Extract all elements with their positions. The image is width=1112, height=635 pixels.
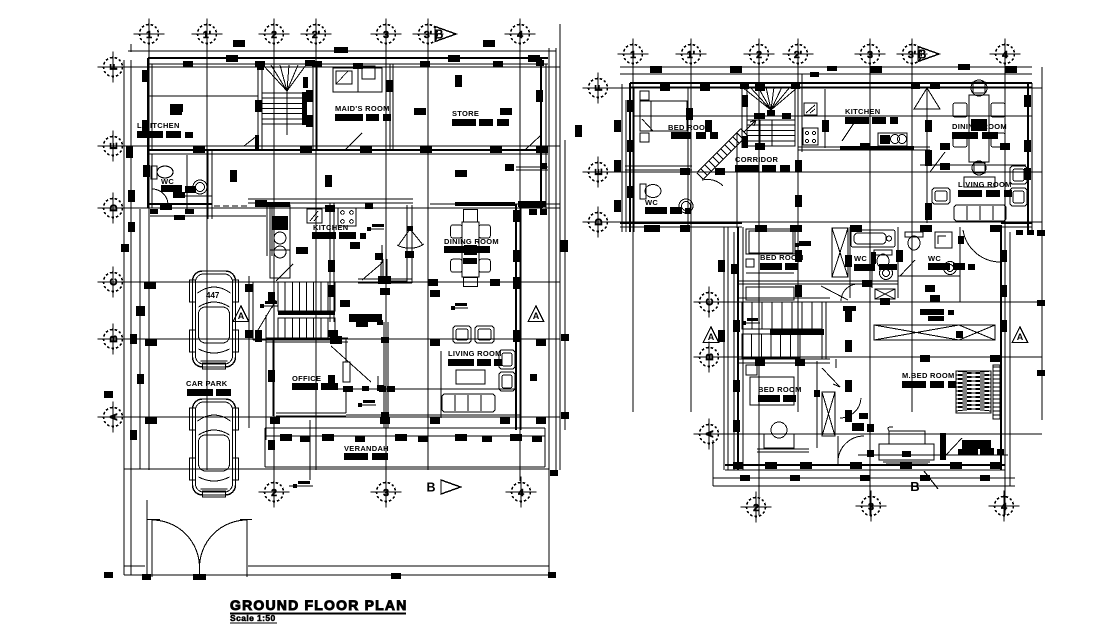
lower bedroom walls: [835, 359, 837, 368]
section tri A right plan left: [703, 327, 719, 343]
lkitchen beam: [148, 95, 258, 97]
mbed: [879, 444, 934, 460]
toilet wc2: [905, 232, 923, 250]
svg-text:4: 4: [518, 487, 524, 499]
svg-text:A: A: [704, 430, 716, 438]
svg-text:2: 2: [271, 29, 277, 41]
svg-text:CORRIDOR: CORRIDOR: [735, 155, 779, 164]
svg-text:2': 2': [794, 49, 802, 61]
level marker dining: [451, 306, 455, 310]
svg-text:447: 447: [206, 291, 220, 300]
corridor arrow: [744, 120, 756, 132]
dining beam y204: [430, 203, 560, 205]
section tri A right of living: [528, 306, 544, 322]
svg-text:BED ROOM: BED ROOM: [758, 385, 802, 394]
dining fan door right plan: [914, 88, 940, 109]
right plan right wall upper: [1027, 83, 1029, 232]
level marker stair right: [742, 321, 746, 325]
grid bubble C left side: [104, 273, 123, 292]
svg-text:3': 3': [424, 29, 432, 41]
corridor ramp: [703, 135, 747, 179]
svg-text:C: C: [704, 298, 716, 306]
svg-text:OFFICE: OFFICE: [292, 374, 321, 383]
grid bubble D right side: [589, 213, 608, 232]
wall x330: [329, 203, 331, 322]
stair right plan: [747, 120, 795, 146]
dresser blob: [962, 440, 991, 449]
property boundary left plan: [123, 60, 125, 575]
grid horizontal lines left plan: [102, 66, 560, 68]
right wall x516-520: [515, 204, 517, 430]
svg-text:1: 1: [146, 29, 152, 41]
kitchen counter right plan: [798, 146, 930, 148]
side fence pair: [139, 209, 141, 469]
living tv table: [456, 370, 485, 384]
svg-text:A: A: [238, 311, 245, 321]
level marker stairs: [260, 304, 264, 308]
grid bubble 2 right plan: [750, 45, 769, 64]
living armchair right plan: [932, 188, 950, 204]
svg-text:B: B: [108, 335, 120, 343]
right room walls: [959, 227, 961, 302]
gate arcs bottom left: [151, 520, 153, 578]
svg-text:3: 3: [383, 487, 389, 499]
electric panel right plan: [804, 103, 817, 115]
wall y298 lower: [738, 297, 830, 299]
toilet TL: [640, 184, 646, 199]
grid bubble 3 right plan: [861, 45, 880, 64]
svg-text:2: 2: [271, 487, 277, 499]
wall y205: [148, 203, 212, 205]
corridor guide line: [736, 133, 738, 228]
grid bubble 1' right plan: [682, 45, 701, 64]
grid bubble F right side: [589, 79, 608, 98]
grid bubble F left side: [104, 58, 123, 77]
grid bubble 1 left: [140, 25, 159, 44]
wall y150 band: [148, 149, 548, 151]
wall y359: [738, 358, 830, 360]
top-right room arc: [963, 230, 1000, 262]
svg-text:A: A: [108, 413, 120, 421]
grid bubble E left side: [104, 137, 123, 156]
lower block right wall: [1000, 227, 1002, 470]
bed top-left: [640, 101, 687, 131]
grid bubble 4 bottom left plan: [512, 483, 531, 502]
svg-text:D: D: [593, 218, 605, 226]
left plan wall blobs: [142, 70, 149, 82]
wc mid walls: [849, 227, 851, 298]
level marker verandah: [293, 484, 297, 488]
grid bubble E right side: [589, 163, 608, 182]
dining wall x930: [926, 108, 928, 223]
svg-text:WC: WC: [854, 254, 867, 263]
svg-text:GROUND FLOOR PLAN: GROUND FLOOR PLAN: [230, 597, 408, 613]
svg-text:B: B: [917, 48, 926, 62]
grid vertical lines right plan: [632, 44, 634, 412]
grid bubble 4 right plan: [996, 45, 1015, 64]
verandah lines: [265, 427, 545, 429]
bedroom TL door arc: [702, 179, 723, 186]
section marker B top left plan: [435, 27, 456, 42]
svg-text:KITCHEN: KITCHEN: [845, 107, 880, 116]
level marker kitchen: [367, 227, 371, 231]
section tri A left plan: [233, 306, 249, 322]
svg-text:3: 3: [383, 29, 389, 41]
grid bubble A right side: [700, 425, 719, 444]
bed lower left room: [746, 365, 757, 375]
outer wall top: [148, 57, 548, 59]
stair lower wall: [821, 302, 823, 359]
svg-text:LIVING ROOM: LIVING ROOM: [448, 349, 502, 358]
door arc lower mid: [840, 398, 861, 418]
grid bubble 3 bottom right plan: [862, 497, 881, 516]
svg-text:3: 3: [868, 501, 874, 513]
svg-text:KITCHEN: KITCHEN: [313, 223, 348, 232]
verandah blob row: [280, 434, 292, 441]
right plan left wall upper: [629, 83, 631, 232]
grid horizontal lines right plan: [587, 87, 1042, 89]
blob cluster mid right plan: [920, 309, 944, 315]
grid bubble 2' left: [307, 25, 326, 44]
lkitchen bottom door diag: [244, 135, 258, 146]
svg-text:2: 2: [753, 502, 759, 514]
svg-text:3: 3: [867, 49, 873, 61]
svg-text:DINING ROOM: DINING ROOM: [952, 122, 1007, 131]
living chairs right col: [1010, 166, 1027, 184]
right plan wall blobs: [650, 66, 662, 73]
svg-text:B: B: [426, 481, 435, 495]
wardrobe X2: [822, 392, 835, 436]
svg-text:E: E: [593, 168, 605, 175]
grid bubble 4 left: [511, 25, 530, 44]
washer wc mid: [880, 267, 893, 280]
grid bubble 2 bottom left plan: [265, 483, 284, 502]
grid bubble 1 right plan: [624, 45, 643, 64]
grid bubble 2' right plan: [789, 45, 808, 64]
wc door arc left: [152, 189, 168, 204]
carpet strip: [993, 365, 1000, 419]
grid bubble 3' right plan: [903, 45, 922, 64]
grid bubble 3 left: [377, 25, 396, 44]
wall x310 stairwell: [312, 64, 314, 150]
wc TL walls: [625, 165, 692, 167]
sink left plan: [193, 180, 207, 194]
wardrobe X1: [832, 228, 848, 277]
stairs lower flight B: [278, 318, 335, 340]
kitchen sink unit: [272, 216, 288, 230]
svg-text:1: 1: [630, 49, 636, 61]
svg-text:B: B: [704, 353, 716, 361]
right wall step y168: [516, 166, 548, 168]
grid bubble 2 left: [265, 25, 284, 44]
grid bubble 3 bottom left plan: [377, 483, 396, 502]
maids room door diag: [345, 133, 362, 150]
svg-text:MAID'S ROOM: MAID'S ROOM: [335, 104, 390, 113]
lower block bottom: [725, 464, 1005, 466]
wall x390 maids/store: [389, 64, 391, 150]
mbed area blobs: [867, 424, 874, 432]
outer wall right upper: [540, 58, 542, 214]
sink wc2: [935, 232, 952, 248]
svg-text:B: B: [434, 28, 443, 42]
svg-text:4: 4: [1001, 501, 1007, 513]
sink TL: [679, 199, 693, 213]
kitchen counter left: [270, 205, 290, 250]
living armchair 2: [475, 326, 494, 343]
carpet hatch: [956, 371, 991, 413]
stairs top fan: [263, 65, 287, 91]
svg-text:DINING ROOM: DINING ROOM: [444, 237, 499, 246]
kitchen wall y203: [248, 202, 413, 204]
wall x258 stairwell: [257, 64, 259, 150]
stair right wall x798: [797, 74, 799, 152]
svg-text:STORE: STORE: [452, 109, 479, 118]
stove left plan: [338, 208, 356, 226]
grid bubble 1' left: [198, 25, 217, 44]
grid bubble B left side: [104, 330, 123, 349]
dining table right plan: [969, 95, 989, 162]
svg-text:2': 2': [312, 29, 320, 41]
svg-text:A: A: [1017, 332, 1024, 342]
dining table: [462, 222, 479, 277]
svg-text:WC: WC: [161, 177, 174, 186]
lower block left wall: [723, 227, 725, 470]
svg-text:4: 4: [517, 29, 523, 41]
bathtub: [851, 230, 895, 247]
grid bubble 3' left: [419, 25, 438, 44]
stairs lower arrow: [258, 300, 276, 330]
grid bubble C right side: [700, 293, 719, 312]
section tri A right plan right: [1012, 327, 1028, 343]
closet X long: [874, 325, 995, 340]
mbed door diag: [822, 368, 840, 387]
svg-text:2: 2: [756, 49, 762, 61]
svg-text:3': 3': [908, 49, 916, 61]
svg-text:Scale 1:50: Scale 1:50: [230, 613, 276, 623]
grid bubble 4 bottom right plan: [995, 497, 1014, 516]
car 447: [193, 271, 236, 367]
car 2: [193, 399, 236, 495]
grid bubble D left side: [104, 199, 123, 218]
svg-text:C: C: [108, 278, 120, 286]
svg-text:D: D: [108, 204, 120, 212]
dim ticks top left plan: [130, 44, 132, 52]
living armchair 1: [453, 326, 471, 343]
grid bubble 2 bottom right plan: [747, 498, 766, 517]
svg-text:F: F: [593, 84, 605, 91]
svg-text:WC: WC: [928, 254, 941, 263]
living side chairs: [499, 350, 515, 369]
stairs top flight: [262, 93, 305, 124]
toilet wc mid: [874, 250, 892, 268]
svg-text:WC: WC: [645, 198, 658, 207]
right plan upper block bottom: [620, 222, 742, 224]
entry fan door: [398, 229, 410, 246]
svg-text:CAR PARK: CAR PARK: [186, 379, 228, 388]
living sofa: [442, 394, 495, 412]
wc left wall: [147, 150, 149, 208]
stove 4dot right plan: [803, 128, 818, 145]
svg-text:M.BED ROOM: M.BED ROOM: [902, 371, 955, 380]
svg-text:1': 1': [203, 29, 211, 41]
svg-text:A: A: [708, 332, 715, 342]
svg-text:F: F: [108, 63, 120, 70]
wall x383 seg: [382, 259, 384, 281]
outer wall left upper: [147, 58, 149, 150]
stairs lower rail: [278, 311, 335, 315]
svg-text:4: 4: [1002, 49, 1008, 61]
wall y279: [358, 278, 412, 280]
svg-text:E: E: [108, 142, 120, 149]
maids bed: [333, 68, 382, 92]
desk blob office: [349, 314, 382, 322]
toilet left plan: [151, 166, 157, 179]
stove right plan: [878, 133, 907, 146]
wall x230 down: [207, 151, 209, 219]
living wall right plan: [920, 164, 1026, 166]
stairs lower flight A: [278, 282, 335, 311]
office door diag: [331, 346, 371, 382]
grid bubble B right side: [700, 348, 719, 367]
svg-text:1': 1': [687, 49, 695, 61]
office walls: [265, 315, 267, 440]
right plan outer top: [630, 82, 1032, 84]
svg-text:VERANDAH: VERANDAH: [344, 444, 389, 453]
svg-text:LIVING ROOM: LIVING ROOM: [958, 180, 1012, 189]
section marker B top right plan: [918, 47, 939, 62]
svg-text:A: A: [533, 311, 540, 321]
living sofa right plan: [954, 205, 1006, 221]
grid vertical lines left plan: [148, 24, 150, 470]
section marker B bottom left plan: [441, 480, 461, 494]
grid bubble A left side: [104, 408, 123, 427]
wall x407-413: [406, 205, 408, 283]
store door diag: [525, 136, 540, 150]
bedroom TL walls: [687, 87, 689, 232]
level marker office: [358, 403, 362, 407]
electric panel: [307, 209, 322, 223]
stair lower right plan: [742, 302, 822, 329]
bed lower TL: [746, 229, 795, 254]
